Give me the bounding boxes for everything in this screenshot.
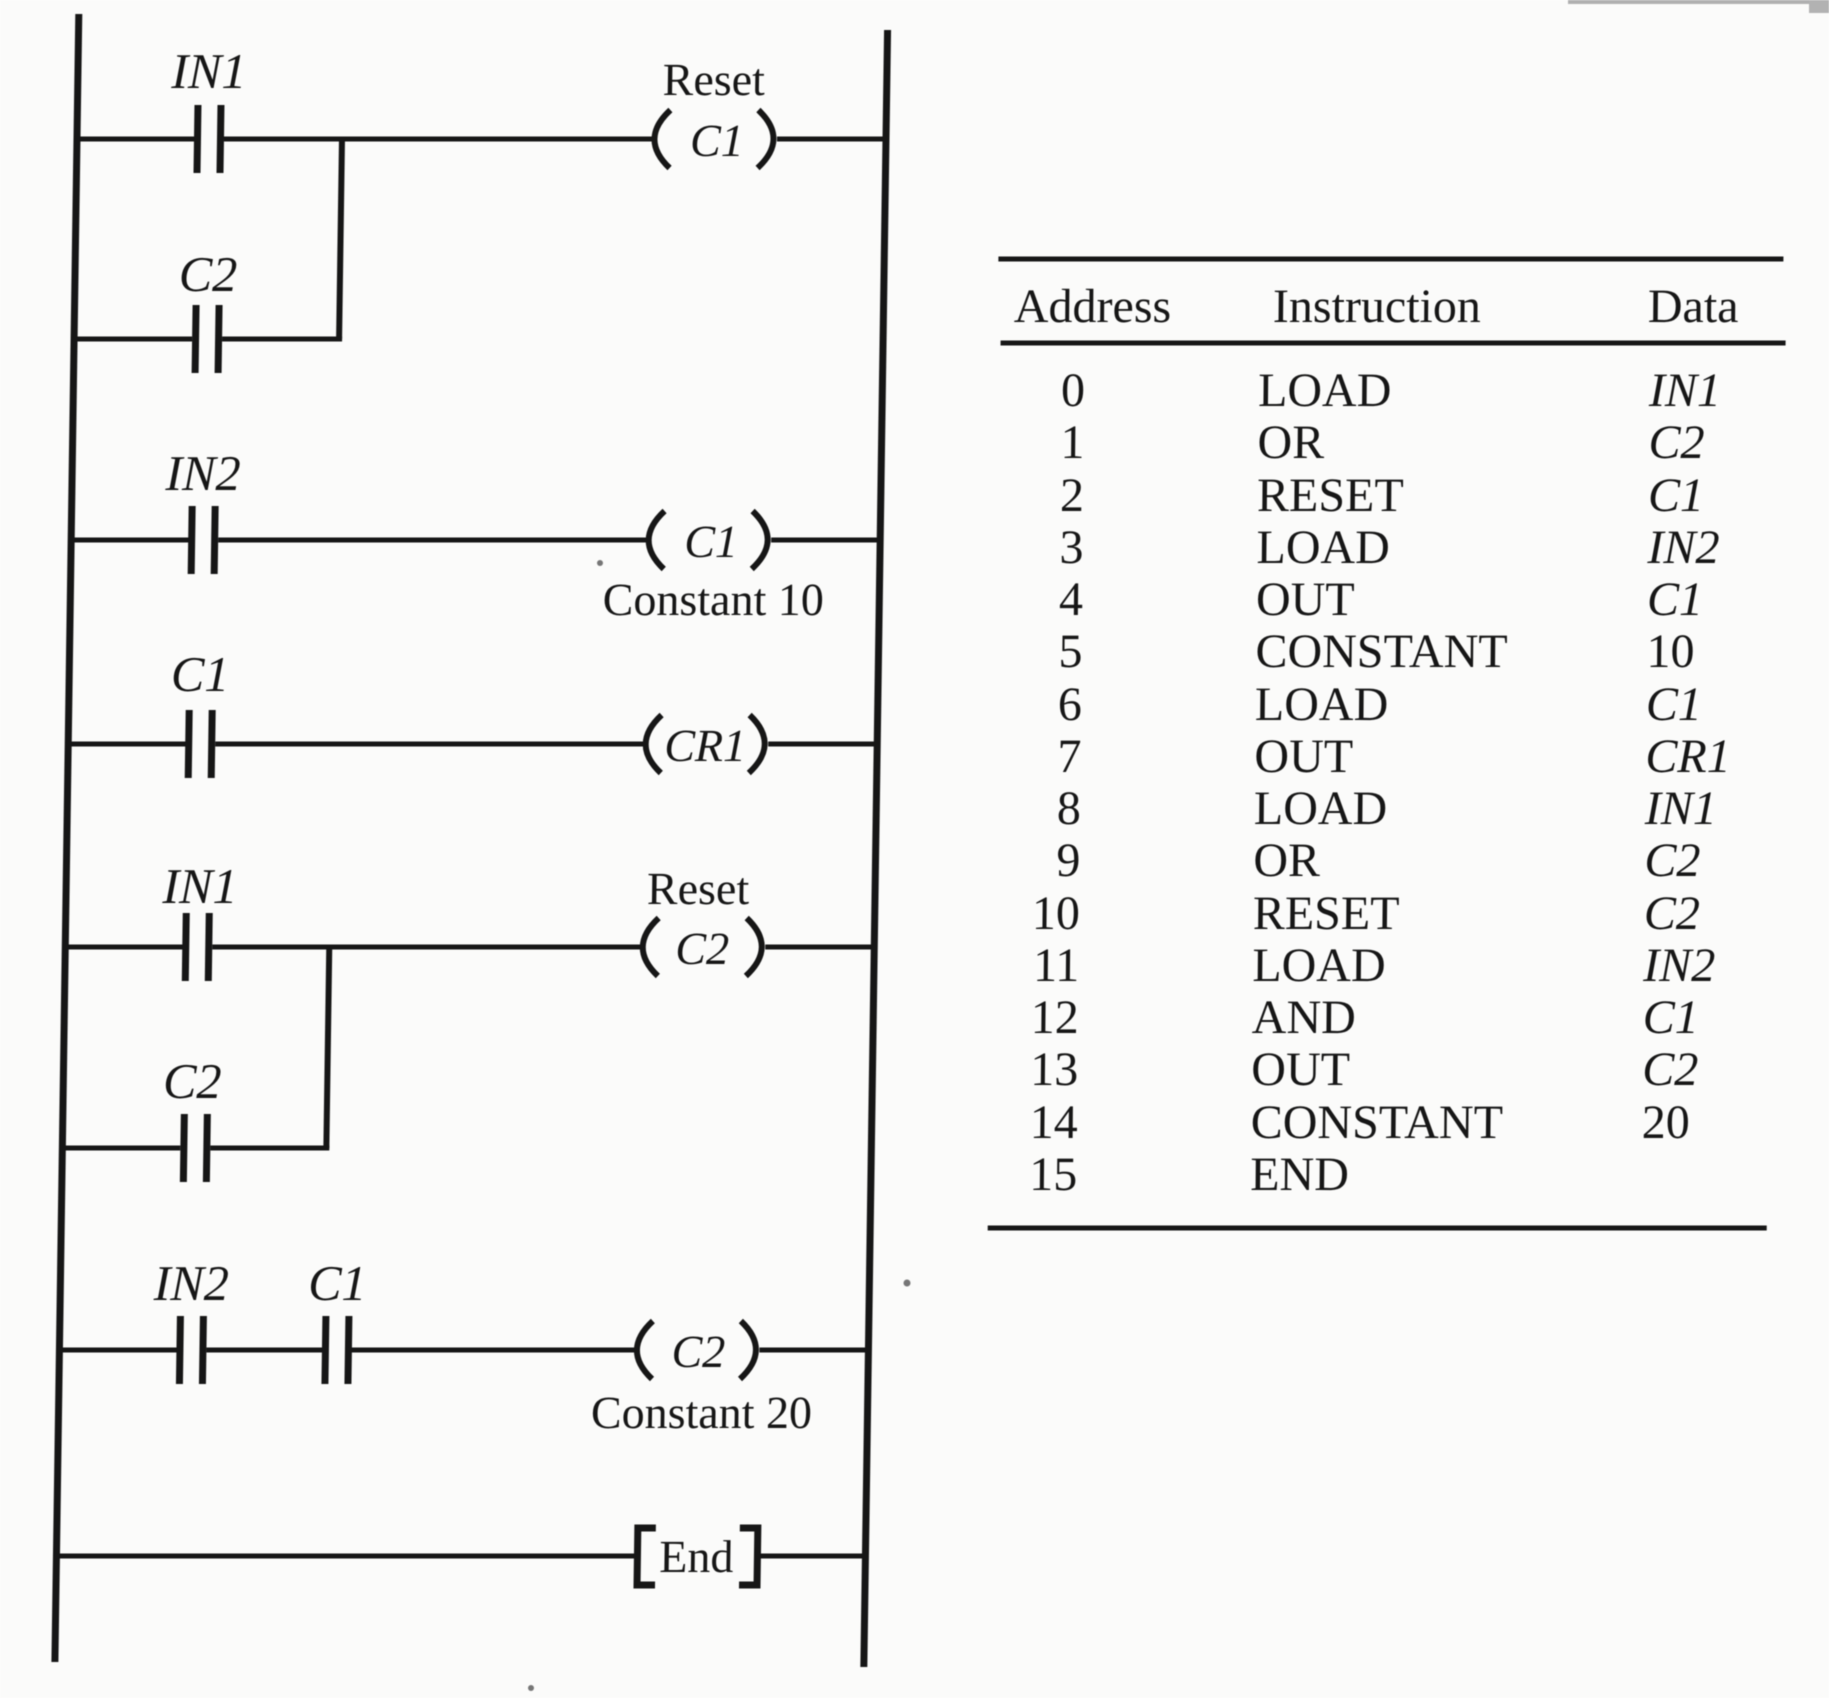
contact C2 (parallel branch): [192, 305, 200, 373]
svg-text:C1: C1: [1648, 469, 1705, 522]
svg-text:C2: C2: [1644, 887, 1701, 940]
contact IN1: [193, 105, 201, 173]
svg-text:Instruction: Instruction: [1273, 280, 1481, 333]
svg-text:AND: AND: [1252, 991, 1357, 1044]
svg-text:8: 8: [1057, 782, 1082, 835]
svg-text:Address: Address: [1014, 280, 1172, 333]
svg-text:RESET: RESET: [1257, 469, 1404, 522]
wire: [56, 1348, 177, 1353]
svg-text:Constant 10: Constant 10: [602, 574, 824, 625]
wire branch rung: [71, 337, 192, 342]
svg-text:LOAD: LOAD: [1258, 364, 1392, 417]
contact IN1: [182, 913, 190, 981]
svg-text:10: 10: [1646, 625, 1695, 678]
wire: [215, 742, 644, 747]
svg-text:C1: C1: [171, 646, 230, 702]
wire: [224, 137, 653, 142]
contact C1 (series): [321, 1316, 329, 1384]
contact IN2: [176, 1316, 184, 1384]
svg-text:CR1: CR1: [664, 720, 747, 771]
wire: [53, 1554, 635, 1559]
svg-text:C1: C1: [684, 516, 738, 567]
wire: [759, 1348, 870, 1353]
wire: [68, 538, 189, 543]
svg-text:C1: C1: [1647, 573, 1704, 626]
coil C1 (Reset): [654, 110, 670, 168]
svg-text:IN1: IN1: [1644, 782, 1718, 835]
contact IN2: [188, 506, 196, 574]
svg-text:OUT: OUT: [1254, 730, 1353, 783]
svg-text:15: 15: [1029, 1148, 1078, 1201]
svg-text:11: 11: [1033, 939, 1080, 992]
table top rule: [998, 257, 1783, 262]
coil CR1: [645, 715, 661, 773]
wire: [768, 742, 879, 747]
svg-text:12: 12: [1031, 991, 1080, 1044]
wire: [62, 945, 183, 950]
svg-text:C2: C2: [675, 923, 729, 974]
coil C1 (Constant 10): [648, 511, 664, 569]
wire: [65, 742, 186, 747]
contact C2 (parallel branch): [180, 1114, 188, 1182]
svg-text:OR: OR: [1253, 834, 1320, 887]
svg-text:10: 10: [1032, 887, 1081, 940]
left power rail: [55, 14, 79, 1662]
svg-text:IN2: IN2: [164, 445, 241, 501]
svg-text:RESET: RESET: [1253, 887, 1400, 940]
svg-text:Reset: Reset: [647, 863, 750, 914]
svg-text:IN1: IN1: [1648, 364, 1722, 417]
wire: [210, 1146, 329, 1151]
svg-text:LOAD: LOAD: [1256, 521, 1390, 574]
wire: [351, 1348, 635, 1353]
End bracket right: [739, 1528, 758, 1585]
wire: [759, 1554, 867, 1559]
svg-text:IN1: IN1: [170, 43, 247, 99]
svg-text:Reset: Reset: [662, 54, 765, 105]
svg-text:6: 6: [1058, 678, 1083, 731]
svg-text:Constant 20: Constant 20: [591, 1387, 813, 1438]
wire: [765, 945, 876, 950]
svg-text:1: 1: [1060, 416, 1085, 469]
wire: [74, 137, 195, 142]
svg-text:LOAD: LOAD: [1255, 678, 1389, 731]
svg-text:2: 2: [1060, 469, 1085, 522]
svg-text:LOAD: LOAD: [1252, 939, 1386, 992]
node: branch junction: [339, 139, 342, 339]
ladder text labels (same shear): [149, 43, 832, 1582]
wire: [212, 945, 641, 950]
svg-text:4: 4: [1059, 573, 1084, 626]
svg-text:CONSTANT: CONSTANT: [1251, 1096, 1504, 1149]
wire: [222, 337, 342, 342]
right power rail: [864, 30, 888, 1667]
svg-text:5: 5: [1058, 625, 1083, 678]
wire: [206, 1348, 322, 1353]
svg-text:END: END: [1250, 1148, 1349, 1201]
svg-text:C2: C2: [163, 1053, 222, 1109]
table bottom rule: [988, 1226, 1767, 1231]
wire: [777, 137, 888, 142]
svg-text:CONSTANT: CONSTANT: [1255, 625, 1508, 678]
svg-text:C2: C2: [178, 246, 237, 302]
svg-text:C2: C2: [1648, 416, 1705, 469]
svg-text:C2: C2: [671, 1326, 725, 1377]
scan speckles: [528, 560, 911, 1691]
svg-text:OR: OR: [1257, 416, 1324, 469]
svg-text:C2: C2: [1644, 834, 1701, 887]
coil C2 (Reset): [642, 918, 658, 976]
svg-text:Data: Data: [1648, 280, 1739, 333]
svg-text:IN2: IN2: [1646, 521, 1720, 574]
svg-text:OUT: OUT: [1251, 1043, 1350, 1096]
svg-text:13: 13: [1030, 1043, 1079, 1096]
svg-text:14: 14: [1030, 1096, 1079, 1149]
svg-text:C1: C1: [690, 115, 744, 166]
svg-text:IN1: IN1: [161, 858, 238, 914]
scanner gray strip top right: [1568, 0, 1829, 4]
contact C1: [185, 710, 193, 778]
svg-text:CR1: CR1: [1645, 730, 1731, 783]
wire branch rung: [59, 1146, 180, 1151]
svg-text:C1: C1: [1646, 678, 1703, 731]
svg-text:7: 7: [1057, 730, 1082, 783]
svg-text:IN2: IN2: [1642, 939, 1716, 992]
table header rule: [1001, 341, 1786, 346]
wire: [771, 538, 882, 543]
svg-text:C1: C1: [1643, 991, 1700, 1044]
svg-text:9: 9: [1056, 834, 1081, 887]
svg-text:IN2: IN2: [152, 1255, 229, 1311]
wire: [218, 538, 647, 543]
svg-text:OUT: OUT: [1256, 573, 1355, 626]
End bracket left: [637, 1528, 656, 1585]
svg-text:20: 20: [1642, 1096, 1691, 1149]
svg-text:LOAD: LOAD: [1254, 782, 1388, 835]
svg-text:End: End: [659, 1531, 734, 1582]
svg-text:C1: C1: [308, 1255, 367, 1311]
svg-text:0: 0: [1061, 364, 1086, 417]
node: branch junction: [326, 947, 329, 1148]
svg-text:C2: C2: [1642, 1043, 1699, 1096]
coil C2 (Constant 20): [637, 1321, 653, 1379]
svg-text:3: 3: [1059, 521, 1084, 574]
